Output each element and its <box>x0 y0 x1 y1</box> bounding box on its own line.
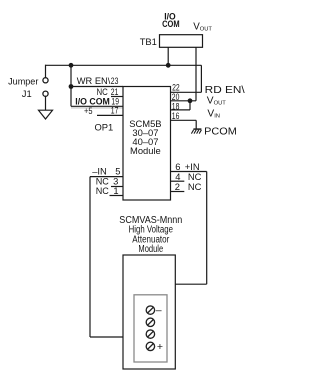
wire +IN link to terminal block <box>176 283 207 285</box>
wire TB1 pin 2 (VOUT) drop to pin 20 <box>195 47 197 101</box>
wire VOUT-VIN tie <box>189 101 191 110</box>
svg-text:16: 16 <box>172 110 180 121</box>
svg-text:17: 17 <box>111 105 119 116</box>
wire PCOM drop <box>195 120 197 128</box>
node junction VOUT/VIN <box>188 98 193 103</box>
ground symbol J1 <box>39 110 53 119</box>
wire J1 to ground <box>45 96 47 110</box>
screw terminal 1 <box>146 306 154 351</box>
terminal block TB1 <box>160 35 203 48</box>
svg-text:J1: J1 <box>22 88 32 99</box>
node junction bus / WR EN riser <box>69 63 74 68</box>
node junction bus / TB1 pin1 <box>166 63 171 68</box>
svg-text:2: 2 <box>175 181 180 192</box>
wire -IN left drop <box>89 177 91 337</box>
wire pin 6 +IN <box>171 171 207 173</box>
screw terminal 4 <box>146 342 154 350</box>
wire -IN link to terminal block <box>90 336 123 338</box>
wire pin 19 I/O COM <box>71 105 123 107</box>
svg-text:6: 6 <box>175 161 180 172</box>
wire pin 2 NC stub <box>171 191 185 193</box>
svg-text:+: + <box>157 341 163 353</box>
svg-text:NC: NC <box>188 181 202 192</box>
svg-text:OP1: OP1 <box>95 121 114 132</box>
wire pin 3 NC stub <box>111 186 123 188</box>
svg-text:NC: NC <box>96 185 109 196</box>
wire pin 5 -IN <box>90 176 123 178</box>
wire pin 22 RD EN <box>171 91 202 93</box>
terminal block inner box <box>134 295 167 362</box>
svg-text:23: 23 <box>111 75 119 86</box>
svg-text:+5: +5 <box>84 105 93 116</box>
svg-text:Module: Module <box>138 244 163 255</box>
wire TB1 pin 1 (I/O COM) drop <box>167 47 169 65</box>
wire RD EN riser <box>200 65 202 92</box>
svg-text:COM: COM <box>162 18 180 29</box>
svg-text:–: – <box>156 304 162 316</box>
wire pin 4 NC stub <box>171 180 185 182</box>
wire pin 1 NC stub <box>110 195 124 197</box>
screw terminal 2 <box>146 318 154 326</box>
svg-text:RD EN\: RD EN\ <box>205 85 245 96</box>
svg-text:WR EN\: WR EN\ <box>77 75 111 86</box>
svg-text:Jumper: Jumper <box>8 76 38 87</box>
PCOM chassis ground symbol <box>191 129 201 134</box>
screw terminal 3 <box>146 330 154 338</box>
wire pin 20 VOUT <box>171 100 197 102</box>
wire I/O COM bus <box>46 64 202 66</box>
wire pin 18 VIN <box>171 109 191 111</box>
svg-text:PCOM: PCOM <box>204 126 237 137</box>
jumper terminal bottom J1 <box>43 91 48 96</box>
svg-text:Module: Module <box>130 145 161 156</box>
wire WR EN / I-O COM riser <box>70 65 72 106</box>
wire pin 19 shadow <box>71 107 123 109</box>
wire pin 17 +5 stub <box>97 114 123 116</box>
op-amp module U1 SCM5B box <box>123 87 171 201</box>
terminal block outer box <box>123 255 175 369</box>
svg-text:1: 1 <box>113 185 118 196</box>
svg-text:+IN: +IN <box>185 161 200 172</box>
wire pin 21 NC stub <box>111 96 123 98</box>
node junction WR EN pin 23 <box>69 84 74 89</box>
wire pin 23 WR EN <box>71 86 123 88</box>
wire jumper riser <box>45 65 47 78</box>
svg-text:TB1: TB1 <box>140 36 157 47</box>
wire +IN right drop <box>206 172 208 285</box>
wire pin 16 PCOM <box>171 119 197 121</box>
svg-text:I/O COM: I/O COM <box>75 95 110 106</box>
jumper terminal top <box>43 78 48 83</box>
